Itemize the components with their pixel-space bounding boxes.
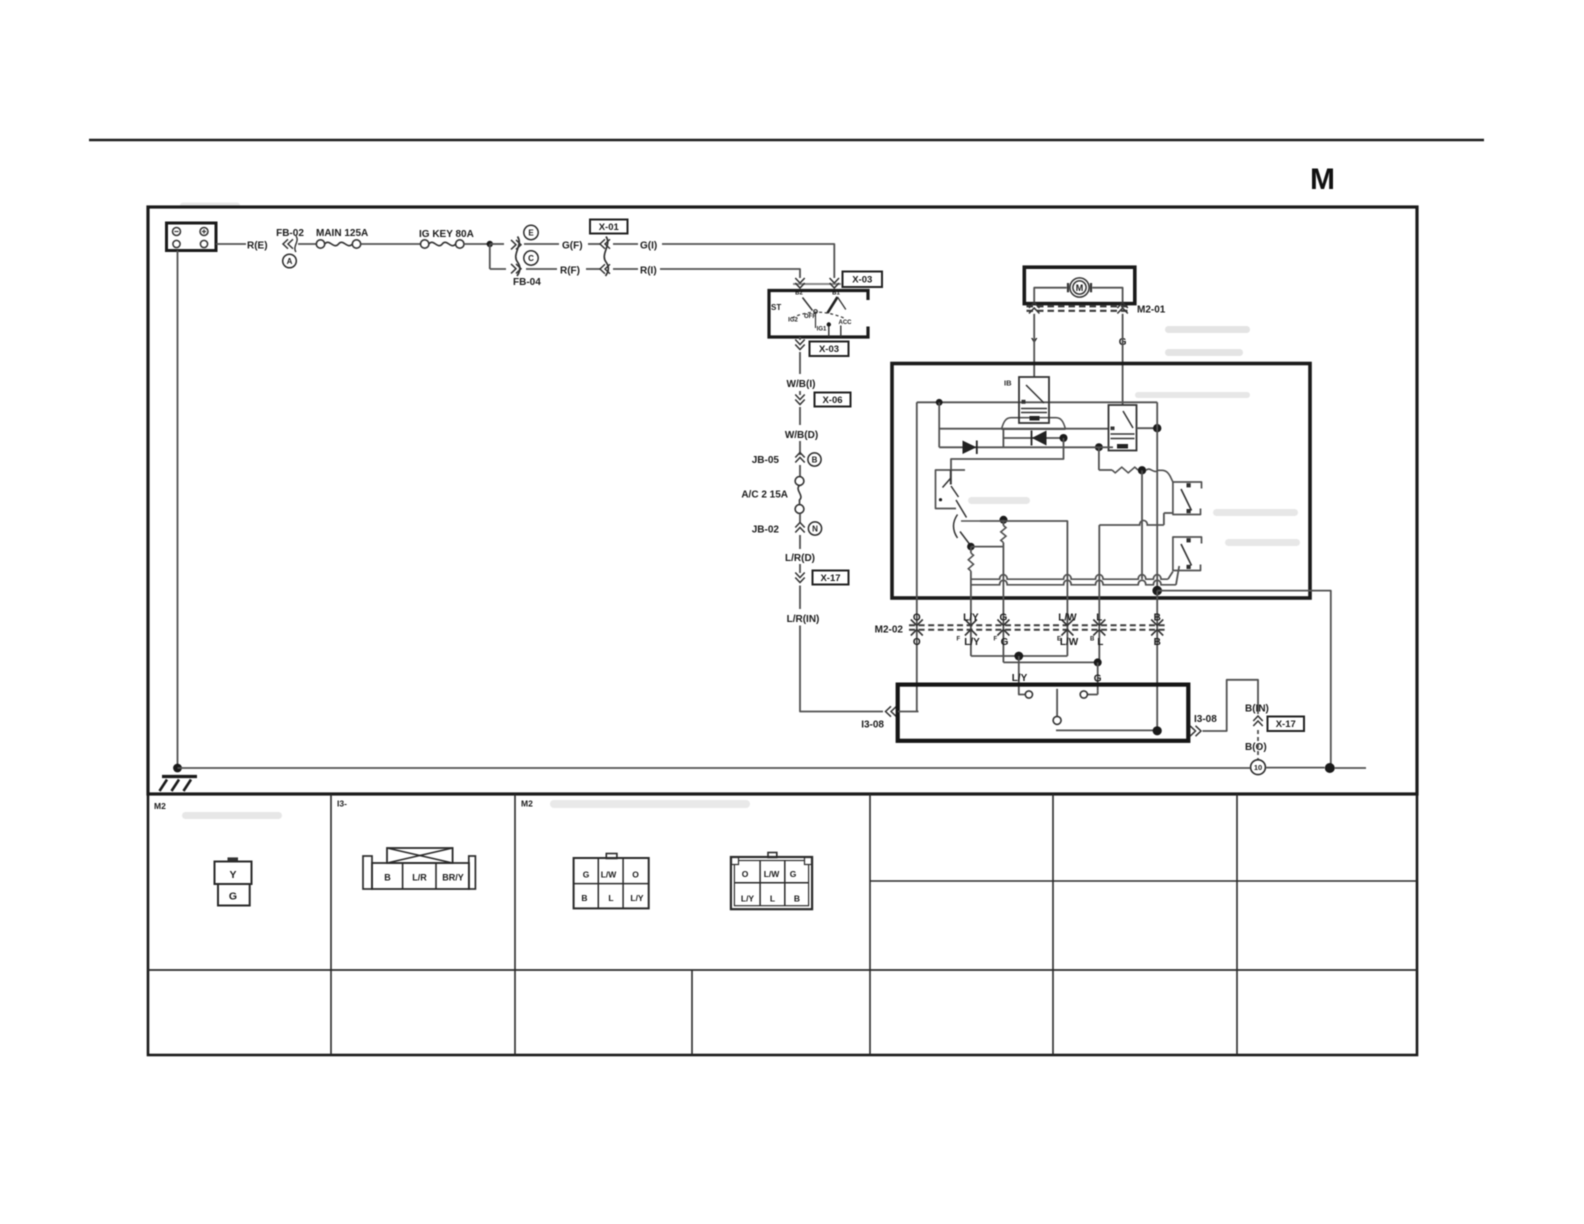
ground point 10 (1251, 760, 1266, 775)
wiper switch terminal L/Y (1019, 691, 1025, 695)
wire FB-02 to MAIN fuse (298, 243, 317, 245)
relay B (1109, 405, 1137, 451)
svg-text:G: G (790, 869, 797, 879)
diode D2 (1002, 429, 1004, 448)
svg-text:ACC: ACC (839, 320, 853, 326)
connector view M2-01 (228, 857, 239, 860)
svg-text:IB: IB (1004, 379, 1012, 388)
svg-text:R(F): R(F) (560, 266, 580, 277)
connector view I3-08 (363, 856, 372, 889)
terminal E (524, 225, 538, 239)
wire lower bus 2 (971, 580, 1176, 585)
svg-text:L/Y: L/Y (630, 893, 644, 903)
wire battery to R(E) (216, 243, 246, 245)
svg-text:X-01: X-01 (599, 222, 620, 233)
svg-text:B: B (581, 893, 587, 903)
junction G/L (1094, 658, 1102, 666)
connector X-06 chevrons (799, 391, 801, 395)
terminal B at JB-05 (808, 453, 821, 466)
svg-text:G: G (229, 891, 237, 903)
wire to W/B(I) (799, 352, 801, 374)
slider contact bar (1002, 418, 1066, 430)
svg-text:G: G (1000, 613, 1008, 624)
svg-text:L/Y: L/Y (1012, 673, 1028, 684)
svg-text:B: B (812, 455, 818, 464)
wire relay feed (939, 428, 1108, 430)
wire L/R(IN) to I3-08 (800, 626, 883, 712)
relay A (1019, 377, 1049, 423)
transistor T1 (output hi) (1173, 482, 1202, 515)
connector M2-01 (1027, 305, 1132, 307)
svg-text:O: O (632, 870, 639, 880)
wire MAIN to IG KEY (361, 243, 421, 245)
svg-text:C: C (528, 254, 534, 263)
junction node B lower (1152, 586, 1162, 596)
wire R(I) to ignition switch (660, 269, 800, 278)
junction B in switch (1153, 726, 1162, 735)
svg-text:IG1: IG1 (817, 327, 827, 333)
svg-text:X-06: X-06 (822, 395, 842, 406)
connector X-03 label bottom (810, 342, 849, 357)
junction ground bus right (1325, 763, 1335, 773)
svg-text:W/B(D): W/B(D) (785, 430, 818, 441)
junction Q2 emitter (967, 543, 975, 551)
wire IG KEY to junction (464, 243, 490, 245)
svg-text:BR/Y: BR/Y (442, 873, 464, 883)
connector X-17 label right (1268, 717, 1305, 732)
ground symbol (162, 775, 197, 778)
connector I3-08 right (1190, 726, 1201, 736)
ignition switch OFF pivot (814, 310, 818, 314)
wire Y to control relay (1033, 314, 1035, 377)
svg-text:G(I): G(I) (640, 241, 657, 252)
wire to R(F) (526, 268, 557, 270)
svg-text:M2: M2 (154, 801, 166, 811)
junction on bus (936, 399, 943, 406)
wiper switch terminal G (1097, 691, 1099, 695)
svg-text:L/Y: L/Y (741, 893, 755, 903)
svg-text:E: E (1057, 637, 1061, 643)
wiper motor box (1024, 267, 1135, 303)
wire fuse to JB-02 (799, 514, 801, 523)
connector X-03 bottom chevrons (795, 340, 805, 350)
svg-text:W/B(I): W/B(I) (787, 379, 816, 390)
connector FB-04 lower (490, 268, 506, 270)
svg-text:M2: M2 (521, 799, 533, 809)
ground bus wire (178, 767, 1251, 769)
connector X-03 label top (843, 272, 883, 288)
wire ignition switch output (799, 337, 801, 340)
connector X-17 chevrons upper (799, 564, 801, 573)
wire L/R(IN) inside switch (898, 711, 919, 713)
wire relay B to node B (1137, 427, 1158, 429)
wire junction to FB-04 (490, 243, 504, 245)
wire motor right lead (1092, 288, 1122, 304)
svg-text:L/R(D): L/R(D) (785, 553, 815, 564)
svg-text:O: O (913, 613, 921, 624)
terminal A (283, 254, 297, 268)
svg-text:A/C 2 15A: A/C 2 15A (741, 490, 788, 501)
svg-text:G(F): G(F) (562, 241, 583, 252)
svg-text:L: L (1097, 637, 1103, 648)
svg-text:IG KEY 80A: IG KEY 80A (419, 229, 474, 240)
svg-text:X-17: X-17 (1276, 719, 1296, 730)
page top rule (89, 139, 1484, 142)
diode D1 (939, 446, 1063, 448)
svg-text:R(E): R(E) (247, 241, 268, 252)
svg-text:M2-01: M2-01 (1137, 305, 1166, 316)
svg-text:M2-02: M2-02 (875, 625, 904, 636)
svg-text:O: O (742, 869, 749, 879)
svg-text:B: B (794, 893, 800, 903)
ignition switch ACC lead (840, 326, 842, 338)
svg-text:FB-04: FB-04 (513, 277, 541, 288)
connector X-01 on R row (586, 268, 600, 270)
wire to W/B(D) (799, 407, 801, 425)
connector X-03 top chevrons (793, 283, 841, 285)
junction L/Y (1014, 652, 1023, 661)
svg-text:L/W: L/W (1058, 613, 1077, 624)
svg-text:F: F (994, 637, 998, 643)
svg-text:M: M (1310, 163, 1335, 196)
wire Q2 collector to L/W (980, 521, 1067, 656)
svg-text:B1: B1 (832, 291, 840, 297)
wire G to control relay (1122, 314, 1124, 405)
wire diode row to resistor R1 (1095, 443, 1103, 451)
svg-text:X-17: X-17 (820, 573, 840, 584)
svg-text:MAIN 125A: MAIN 125A (316, 228, 368, 239)
svg-text:M: M (1076, 283, 1084, 293)
transistor Q2 (956, 500, 967, 518)
wire battery ground drop (177, 251, 179, 769)
terminal N at JB-02 (808, 522, 821, 535)
ignition switch housing (769, 291, 868, 338)
wire switch to B(IN) (1203, 680, 1259, 731)
node G wire with resistor R2 (1000, 516, 1008, 524)
svg-text:A: A (287, 257, 293, 266)
svg-text:L: L (770, 893, 775, 903)
wire JB-02 to L/R(D) (799, 535, 801, 549)
svg-text:L/W: L/W (601, 870, 618, 880)
connector view M2-02 male (606, 854, 617, 859)
node B vertical wire (1156, 402, 1158, 590)
wire L upper segment (1099, 520, 1164, 525)
connector X-06 label (815, 393, 851, 407)
svg-text:10: 10 (1254, 763, 1262, 772)
connector X-01 on G row (588, 243, 600, 245)
connector X-01 label (590, 220, 628, 234)
bus wire top (917, 401, 1157, 403)
svg-text:IG2: IG2 (788, 318, 798, 324)
svg-text:Y: Y (229, 869, 236, 881)
svg-text:L: L (1096, 613, 1102, 624)
connector FB-04 upper (516, 237, 520, 277)
svg-text:L/R(IN): L/R(IN) (787, 614, 820, 625)
wiper switch common wire (1056, 729, 1157, 731)
main schematic frame (148, 207, 1417, 794)
wire junction down to R(F) row (489, 244, 491, 269)
svg-text:JB-02: JB-02 (752, 525, 780, 536)
wire L/Y to switch junction (971, 655, 1068, 657)
svg-text:I3-08: I3-08 (861, 720, 884, 731)
svg-text:B(O): B(O) (1245, 742, 1267, 753)
svg-text:L/Y: L/Y (964, 637, 980, 648)
resistor R1 (1099, 469, 1112, 471)
connector X-17 label (813, 571, 849, 585)
svg-text:L/W: L/W (764, 869, 781, 879)
svg-text:B: B (1154, 613, 1161, 624)
svg-text:I3-08: I3-08 (1194, 714, 1217, 725)
wiper switch wiper arm (1056, 689, 1058, 717)
svg-text:L/Y: L/Y (963, 613, 979, 624)
wire V3 from R1 junction down (1141, 470, 1143, 579)
svg-text:L: L (608, 893, 613, 903)
svg-text:B(IN): B(IN) (1245, 704, 1269, 715)
svg-text:G: G (1001, 637, 1009, 648)
junction ground bus left (173, 764, 182, 773)
svg-text:E: E (528, 228, 534, 237)
svg-text:OFF: OFF (804, 314, 816, 320)
terminal C (524, 251, 538, 265)
connector view M2-02 female (768, 853, 777, 858)
border smudge (180, 203, 240, 209)
svg-text:JB-05: JB-05 (752, 455, 780, 466)
wire B(O) to ground point (1257, 730, 1259, 760)
svg-text:L/R: L/R (412, 873, 427, 883)
transistor Q1 (driver) (936, 470, 966, 509)
wire G to switch junction (1003, 661, 1097, 663)
svg-text:B2: B2 (795, 291, 803, 297)
svg-text:X-03: X-03 (819, 344, 839, 355)
svg-text:G: G (583, 870, 590, 880)
svg-text:R(I): R(I) (640, 266, 657, 277)
wiper control unit box (892, 364, 1310, 599)
svg-text:N: N (812, 524, 818, 533)
node O vertical wire (916, 402, 918, 711)
svg-text:F: F (957, 637, 961, 643)
svg-text:I3-: I3- (337, 799, 347, 809)
svg-text:B: B (1154, 637, 1161, 648)
svg-text:ST: ST (771, 303, 781, 312)
junction R1 right (1138, 466, 1146, 474)
wire node B to ground drop (1157, 591, 1331, 769)
junction (487, 241, 493, 247)
wire JB-05 to fuse (799, 465, 801, 477)
svg-text:B: B (1090, 637, 1095, 643)
connector X-17 chevrons lower (1253, 716, 1263, 726)
wire to G(F) (524, 243, 559, 245)
wire G(I) to ignition switch (662, 244, 834, 278)
wire to L/R(IN) (799, 586, 801, 610)
svg-text:FB-02: FB-02 (276, 228, 304, 239)
connector detail table (148, 794, 1417, 1055)
wire motor left lead (1034, 288, 1067, 304)
junction diode output (1060, 434, 1068, 442)
transistor T2 (output lo) (1173, 537, 1202, 571)
wire to transistor Q1 (951, 447, 1064, 470)
svg-text:L/W: L/W (1060, 637, 1079, 648)
node B wire through connector (1156, 591, 1158, 731)
svg-text:B: B (384, 873, 391, 883)
wire G drop to switch (1097, 662, 1099, 690)
svg-text:O: O (913, 637, 921, 648)
ignition switch IG1 contact (827, 322, 831, 326)
battery (167, 223, 217, 251)
wire lower bus 1 (971, 575, 1168, 580)
motor M (1070, 278, 1089, 297)
wiper switch box (898, 685, 1189, 741)
node L/Y wire with resistor R3 (970, 547, 972, 553)
wire L/Y drop to switch (1018, 656, 1020, 691)
svg-text:X-03: X-03 (852, 275, 872, 286)
ignition switch position arc (792, 312, 845, 318)
junction relay B output (1153, 424, 1161, 432)
